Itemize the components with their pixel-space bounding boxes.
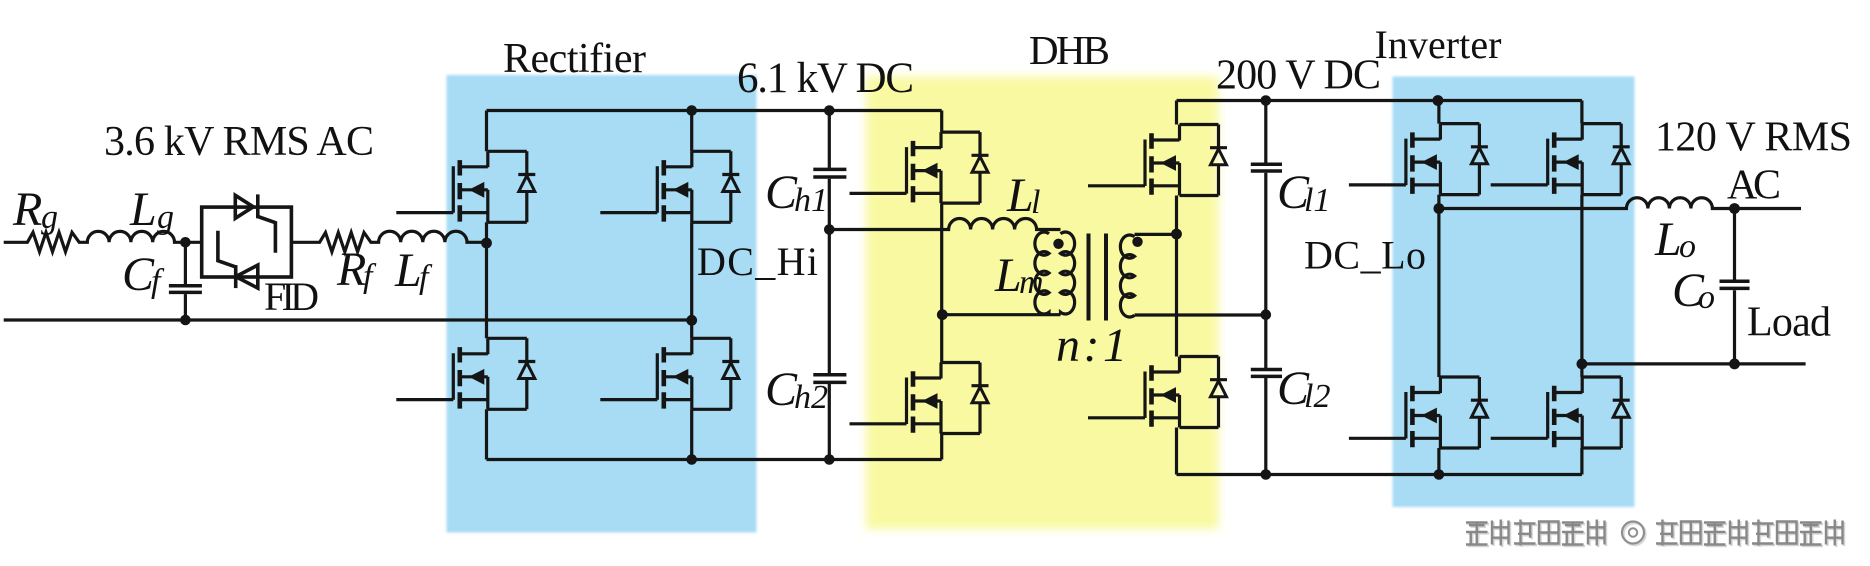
svg-text:3.6 kV RMS AC: 3.6 kV RMS AC xyxy=(104,119,374,165)
svg-text:f: f xyxy=(363,258,377,295)
svg-text:L: L xyxy=(394,244,422,297)
svg-text:200 V DC: 200 V DC xyxy=(1216,53,1381,99)
svg-text:FID: FID xyxy=(264,274,319,319)
svg-text:DC_Hi: DC_Hi xyxy=(697,239,818,284)
svg-text:L: L xyxy=(994,249,1022,302)
svg-text:Load: Load xyxy=(1747,300,1831,346)
svg-text:f: f xyxy=(151,263,165,300)
svg-text:l2: l2 xyxy=(1304,378,1330,415)
svg-text:f: f xyxy=(419,259,433,296)
svg-text:6.1 kV DC: 6.1 kV DC xyxy=(737,55,914,102)
svg-text:h2: h2 xyxy=(794,379,828,416)
svg-text:h1: h1 xyxy=(794,182,828,219)
svg-text:AC: AC xyxy=(1727,163,1781,209)
svg-text:Inverter: Inverter xyxy=(1375,22,1502,67)
svg-text:g: g xyxy=(41,199,58,236)
svg-text:DHB: DHB xyxy=(1029,27,1110,73)
svg-text:L: L xyxy=(1006,169,1034,222)
svg-text:o: o xyxy=(1679,228,1696,265)
svg-text:l1: l1 xyxy=(1304,182,1330,219)
svg-text:n : 1: n : 1 xyxy=(1056,319,1127,372)
svg-text:g: g xyxy=(157,199,174,236)
svg-text:120 V RMS: 120 V RMS xyxy=(1655,115,1852,161)
svg-text:L: L xyxy=(1654,213,1682,266)
svg-text:o: o xyxy=(1698,279,1715,316)
svg-text:R: R xyxy=(336,243,366,296)
svg-text:m: m xyxy=(1019,264,1044,301)
svg-text:l: l xyxy=(1031,184,1040,221)
svg-text:R: R xyxy=(12,183,42,236)
svg-text:L: L xyxy=(129,183,157,236)
svg-text:Rectifier: Rectifier xyxy=(503,36,646,82)
svg-text:DC_Lo: DC_Lo xyxy=(1304,233,1426,278)
